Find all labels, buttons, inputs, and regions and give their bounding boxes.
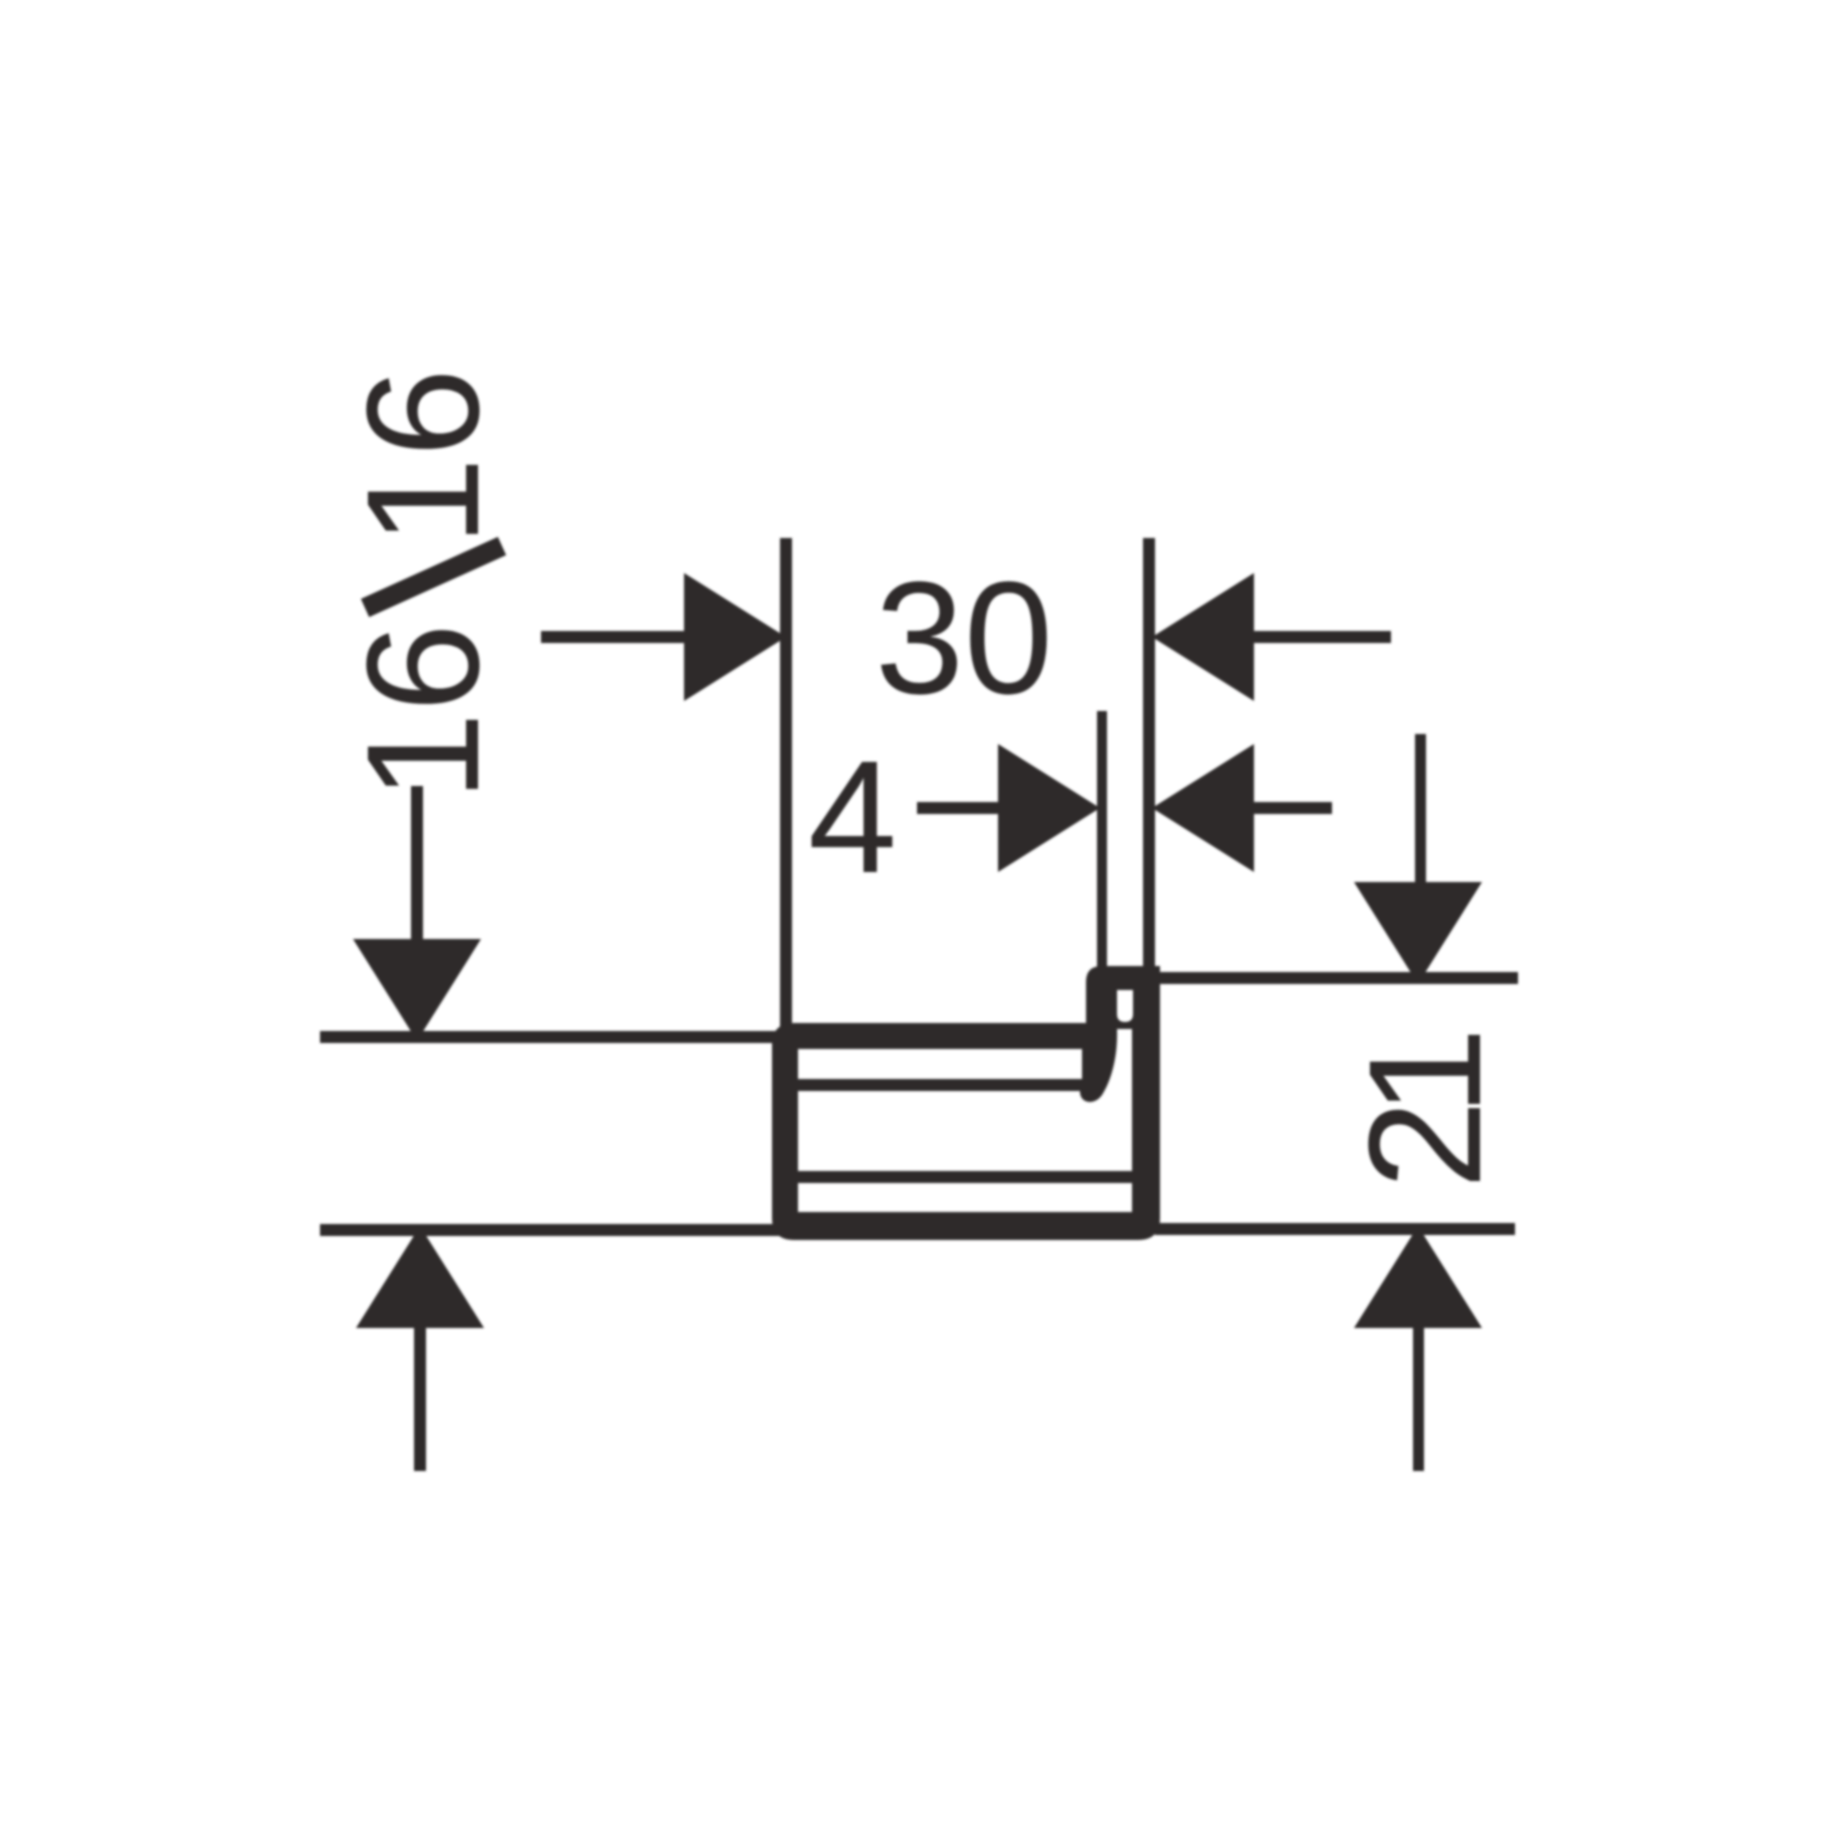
profile bracket outline: [772, 966, 1160, 1240]
wall line right top: [1156, 972, 1518, 984]
extension line 30/21 right: [1143, 538, 1155, 975]
arrow right bottom (points up): [1354, 1226, 1482, 1328]
extension line 4 thin: [1097, 711, 1107, 971]
svg-text:16: 16: [333, 368, 512, 546]
arrow 30 left (points right): [684, 573, 786, 701]
wall line left bottom: [320, 1224, 782, 1236]
svg-text:30: 30: [875, 548, 1053, 727]
extension line 30 left: [780, 538, 792, 1038]
wall line left top: [320, 1031, 782, 1043]
svg-text:16: 16: [333, 623, 512, 801]
wall line right bottom: [1155, 1223, 1515, 1235]
arrow 4 (points right): [998, 744, 1100, 872]
arrow 21 down: [1354, 882, 1482, 984]
arrow 16 down: [353, 939, 481, 1041]
arrow 30 right (points left): [1152, 573, 1254, 701]
svg-text:4: 4: [808, 727, 897, 906]
svg-text:1: 1: [1335, 1027, 1514, 1116]
arrow 4 right (points left): [1152, 744, 1254, 872]
arrow left bottom (points up): [356, 1226, 484, 1328]
